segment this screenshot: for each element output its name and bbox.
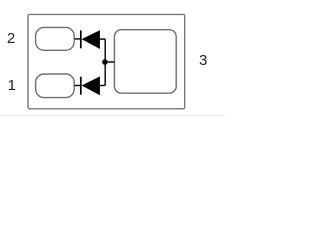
output block (right rounded rect)	[114, 30, 176, 93]
wire from junction to output block	[105, 61, 114, 63]
svg-text:1: 1	[8, 77, 16, 94]
node 2 block (top-left rounded rect)	[36, 27, 75, 50]
diode D2 anode wire (bottom stub from block 1)	[75, 85, 81, 87]
node 1 block (bottom-left rounded rect)	[36, 74, 75, 98]
diode D2 triangle	[82, 76, 100, 95]
package outline (outer border)	[28, 14, 185, 108]
vertical bus wire	[104, 39, 106, 85]
diode D1 anode wire (top stub from block 2)	[75, 38, 81, 40]
diode D1 cathode bar	[80, 30, 82, 48]
svg-text:2: 2	[7, 30, 15, 47]
wire from D2 to bus	[99, 85, 105, 87]
svg-text:3: 3	[199, 52, 207, 69]
diode D1 triangle	[82, 30, 100, 49]
junction dot	[102, 59, 108, 65]
page rule line	[0, 115, 225, 117]
wire from D1 to bus	[99, 38, 105, 40]
diode D2 cathode bar	[80, 77, 82, 95]
